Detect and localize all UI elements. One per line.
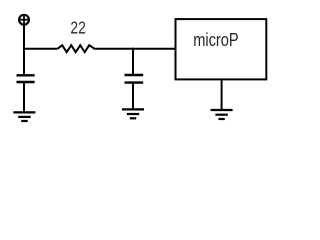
- ground (right): [211, 110, 233, 119]
- op-amp box / microP U1: [176, 19, 267, 79]
- terminal T1 (+ supply input): [19, 15, 29, 25]
- svg-text:22: 22: [70, 18, 85, 38]
- wire microP U1 to ground: [221, 79, 223, 110]
- wire node B down to capacitor C2: [132, 48, 134, 75]
- wire node B to microP U1: [133, 48, 176, 50]
- wire node A to resistor R1: [23, 48, 58, 50]
- capacitor C2: [125, 75, 144, 83]
- resistor R1: [58, 45, 95, 52]
- ground (left): [13, 112, 35, 121]
- wire node A down to capacitor C1: [23, 49, 25, 76]
- capacitor C1: [17, 75, 35, 82]
- ground (middle): [122, 109, 144, 118]
- svg-text:microP: microP: [193, 29, 239, 50]
- wire capacitor C2 to ground: [132, 83, 134, 110]
- wire terminal to node A: [23, 24, 25, 49]
- wire capacitor C1 to ground: [23, 82, 25, 112]
- wire resistor R1 to node B: [94, 48, 133, 50]
